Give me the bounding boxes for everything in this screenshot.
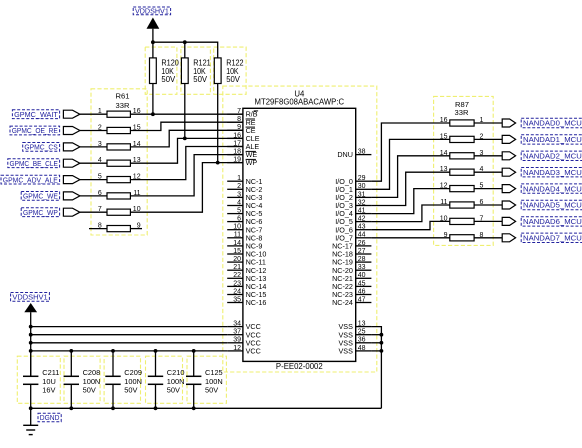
- wire U4 I/O_4 to R87 pin 12: [371, 189, 449, 214]
- variant highlight box C209: [104, 356, 140, 403]
- junction VDD rail 4: [29, 349, 33, 353]
- svg-text:40: 40: [358, 272, 366, 279]
- svg-text:21: 21: [233, 264, 241, 271]
- U4 pin 23 NC-14: [227, 280, 266, 291]
- U4 pin 36 VSS: [339, 337, 372, 348]
- net label GPMC_ADV_ALE: [1, 175, 60, 184]
- resistor network R61 33R: [98, 91, 141, 231]
- wire VDD to U4 VCC pin row 1: [31, 326, 228, 328]
- svg-text:NANDAD4_MCU: NANDAD4_MCU: [523, 184, 582, 193]
- wire R61.16 to U4 R/B: [130, 113, 243, 115]
- U4 pin 39 VCC: [227, 337, 261, 348]
- wire U4 I/O_3 to R87 pin 13: [371, 172, 449, 205]
- svg-text:NANDAD0_MCU: NANDAD0_MCU: [523, 119, 582, 128]
- port arrow GPMC_WE: [63, 192, 80, 200]
- svg-text:GPMC_WAIT: GPMC_WAIT: [14, 110, 58, 119]
- svg-text:50V: 50V: [205, 385, 218, 394]
- U4 pin 15 NC-10: [227, 248, 266, 259]
- U4 pin 34 VCC: [227, 321, 261, 332]
- svg-text:6: 6: [237, 216, 241, 223]
- U4 pin 5 NC-5: [227, 208, 262, 219]
- svg-text:50V: 50V: [226, 75, 240, 84]
- net label NANDAD4_MCU: [521, 184, 582, 193]
- junction VSS bus 4: [380, 349, 384, 353]
- net label NANDAD5_MCU: [521, 200, 582, 209]
- U4 pin 8 RE: [227, 116, 256, 127]
- svg-text:3: 3: [98, 141, 102, 148]
- svg-text:P-EE02-0002: P-EE02-0002: [276, 362, 323, 371]
- U4 pin 7 R/B: [227, 108, 258, 119]
- port arrow NANDAD7_MCU: [502, 234, 515, 242]
- svg-text:50V: 50V: [167, 385, 180, 394]
- variant highlight box C211: [17, 356, 60, 403]
- U4 pin 24 NC-15: [227, 288, 266, 299]
- net label DGND: [38, 413, 61, 422]
- wire GPMC_CS to R61 pin 3: [80, 146, 107, 148]
- svg-text:5: 5: [237, 208, 241, 215]
- net label NANDAD1_MCU: [521, 135, 582, 144]
- svg-text:VDDSHV1: VDDSHV1: [135, 7, 169, 16]
- junction R120 to R/B net: [151, 112, 155, 116]
- junction C125 top: [192, 349, 196, 353]
- svg-text:28: 28: [358, 256, 366, 263]
- net label GPMC_WP: [21, 208, 59, 217]
- svg-text:4: 4: [237, 199, 241, 206]
- svg-text:DGND: DGND: [40, 415, 60, 422]
- op IC U4 MT29F8G08ABACAWP:C body: [243, 89, 356, 371]
- svg-text:31: 31: [358, 191, 366, 198]
- port arrow NANDAD0_MCU: [502, 119, 515, 127]
- wire GPMC_ADV_ALE to R61 pin 5: [80, 179, 107, 181]
- U4 pin 33 NC-20: [332, 264, 371, 275]
- U4 pin 26 NC-17: [332, 240, 371, 251]
- svg-text:NANDAD5_MCU: NANDAD5_MCU: [523, 201, 582, 210]
- variant highlight box C210: [146, 356, 183, 403]
- svg-text:50V: 50V: [124, 385, 137, 394]
- junction C209 top: [111, 349, 115, 353]
- svg-text:35: 35: [233, 296, 241, 303]
- svg-text:NC-16: NC-16: [246, 298, 267, 307]
- wire VDD rail vertical: [30, 327, 32, 377]
- svg-text:30: 30: [358, 183, 366, 190]
- svg-text:GPMC_WE: GPMC_WE: [23, 192, 58, 201]
- svg-text:41: 41: [358, 208, 366, 215]
- svg-text:3: 3: [237, 191, 241, 198]
- junction C208 top: [69, 349, 73, 353]
- svg-text:16: 16: [233, 132, 241, 139]
- U4 pin 16 CLE: [227, 132, 260, 143]
- wire R61.15 to U4 pin row 1: [130, 122, 243, 130]
- net label GPMC_WE: [21, 192, 59, 201]
- port arrow NANDAD4_MCU: [502, 185, 515, 193]
- svg-text:39: 39: [233, 337, 241, 344]
- U4 pin 35 NC-16: [227, 296, 266, 307]
- svg-text:14: 14: [440, 150, 448, 157]
- svg-text:MT29F8G08ABACAWP:C: MT29F8G08ABACAWP:C: [255, 98, 345, 107]
- U4 pin 11 NC-8: [227, 232, 262, 243]
- U4 pin 48 VSS: [339, 345, 372, 356]
- U4 pin 27 NC-18: [332, 248, 371, 259]
- wire VSS pin row 2: [371, 334, 381, 336]
- svg-text:15: 15: [440, 133, 448, 140]
- svg-text:15: 15: [233, 248, 241, 255]
- svg-text:1: 1: [98, 108, 102, 115]
- junction R121 to CLE net: [183, 137, 187, 141]
- U4 pin 45 NC-22: [332, 280, 371, 291]
- net label GPMC_OE_RE: [10, 126, 60, 135]
- svg-text:50V: 50V: [193, 75, 207, 84]
- port arrow NANDAD2_MCU: [502, 152, 515, 160]
- svg-text:GPMC_CS: GPMC_CS: [24, 143, 57, 152]
- wire VDD to U4 VCC pin row 2: [31, 334, 228, 336]
- junction C210 top: [154, 349, 158, 353]
- resistor network R87 33R: [440, 100, 502, 241]
- wire VSS pin row 4: [371, 350, 381, 352]
- svg-text:GPMC_ADV_ALE: GPMC_ADV_ALE: [3, 175, 58, 184]
- U4 pin 37 VCC: [227, 329, 261, 340]
- svg-text:33: 33: [358, 264, 366, 271]
- svg-text:9: 9: [444, 232, 448, 239]
- svg-text:VSS: VSS: [339, 347, 354, 356]
- wire GPMC_OE_RE to R61 pin 2: [80, 130, 107, 132]
- net label NANDAD0_MCU: [521, 118, 582, 127]
- svg-text:47: 47: [358, 296, 366, 303]
- svg-text:GPMC_BE_CLE: GPMC_BE_CLE: [10, 159, 58, 168]
- junction VSS bus 2: [380, 333, 384, 337]
- svg-text:17: 17: [233, 140, 241, 147]
- svg-text:1: 1: [237, 175, 241, 182]
- variant highlight box R120: [145, 47, 177, 94]
- svg-text:VDDSHV1: VDDSHV1: [12, 293, 47, 302]
- port arrow GPMC_BE_CLE: [63, 159, 80, 167]
- svg-text:45: 45: [358, 280, 366, 287]
- wire VSS pin row 3: [371, 342, 381, 344]
- svg-text:34: 34: [233, 321, 241, 328]
- svg-text:NANDAD7_MCU: NANDAD7_MCU: [523, 234, 582, 243]
- wire VDDSHV1 rail to pullups: [153, 42, 218, 58]
- svg-text:38: 38: [358, 149, 366, 156]
- wire ground rail: [31, 407, 382, 409]
- U4 pin 12 VCC: [227, 345, 261, 356]
- U4 pin 1 NC-1: [227, 175, 262, 186]
- wire R61.12 to U4 pin row 4: [130, 147, 243, 180]
- capacitor C211 10U 16V: [23, 351, 59, 408]
- svg-text:33R: 33R: [455, 108, 469, 117]
- U4 pin 14 NC-9: [227, 240, 262, 251]
- U4 pin 31 I/O_2: [335, 191, 371, 202]
- wire GPMC_WAIT to R61 pin 1: [80, 113, 107, 115]
- svg-text:16: 16: [440, 117, 448, 124]
- ground DGND: [23, 408, 38, 434]
- U4 pin 25 VSS: [339, 329, 372, 340]
- capacitor C208 100N 50V: [64, 351, 101, 408]
- svg-text:26: 26: [358, 240, 366, 247]
- U4 pin 47 NC-24: [332, 296, 371, 307]
- U4 pin 46 NC-23: [332, 288, 371, 299]
- U4 pin 9 CE: [227, 124, 256, 135]
- net label NANDAD6_MCU: [521, 217, 582, 226]
- wire GPMC_WE to R61 pin 6: [80, 195, 107, 197]
- wire VDD to U4 VCC pin row 4: [31, 350, 228, 352]
- svg-text:8: 8: [237, 116, 241, 123]
- wire R61.11 to U4 pin row 5: [130, 155, 243, 196]
- power flag VDDSHV1 (top): [133, 7, 170, 43]
- variant highlight box R121: [181, 47, 211, 94]
- U4 pin 38 DNU: [337, 149, 371, 160]
- port arrow NANDAD3_MCU: [502, 168, 515, 176]
- U4 pin 13 VSS: [339, 321, 372, 332]
- wire R61.13 to U4 pin row 3: [130, 138, 243, 163]
- capacitor C125 100N 50V: [186, 351, 223, 408]
- net label GPMC_BE_CLE: [8, 159, 60, 168]
- port arrow NANDAD1_MCU: [502, 135, 515, 143]
- U4 pin 32 I/O_3: [335, 199, 371, 210]
- wire GPMC_BE_CLE to R61 pin 4: [80, 162, 107, 164]
- wire U4 VSS to ground rail: [371, 327, 381, 409]
- junction VDD-R120: [151, 40, 155, 44]
- U4 pin 10 NC-7: [227, 224, 262, 235]
- svg-text:13: 13: [358, 321, 366, 328]
- U4 pin 28 NC-19: [332, 256, 371, 267]
- U4 pin 44 I/O_7: [335, 232, 371, 243]
- svg-text:19: 19: [233, 157, 241, 164]
- U4 pin 2 NC-2: [227, 183, 262, 194]
- junction C125 bottom: [192, 406, 196, 410]
- svg-text:50V: 50V: [83, 385, 96, 394]
- U4 pin 29 I/O_0: [335, 175, 371, 186]
- svg-text:6: 6: [98, 190, 102, 197]
- svg-text:GPMC_WP: GPMC_WP: [23, 208, 58, 217]
- svg-text:7: 7: [98, 206, 102, 213]
- svg-text:NANDAD2_MCU: NANDAD2_MCU: [523, 152, 582, 161]
- U4 pin 43 I/O_6: [335, 224, 371, 235]
- wire U4 I/O_0 to R87 pin 16: [371, 123, 449, 181]
- variant highlight box R87: [434, 96, 494, 245]
- svg-text:24: 24: [233, 288, 241, 295]
- U4 pin 20 NC-11: [227, 256, 266, 267]
- U4 pin 4 NC-4: [227, 199, 262, 210]
- net label NANDAD7_MCU: [521, 233, 582, 242]
- wire VDD to U4 VCC pin row 3: [31, 342, 228, 344]
- resistor R122 10K 50V: [214, 58, 244, 163]
- U4 pin 42 I/O_5: [335, 216, 371, 227]
- svg-text:11: 11: [234, 232, 241, 239]
- svg-text:22: 22: [233, 272, 241, 279]
- svg-text:46: 46: [358, 288, 366, 295]
- svg-text:10: 10: [233, 224, 241, 231]
- resistor R121 10K 50V: [181, 42, 211, 138]
- variant highlight box C208: [64, 356, 100, 403]
- junction C210 bottom: [154, 406, 158, 410]
- resistor R120 10K 50V: [150, 42, 180, 114]
- wire U4 I/O_7 to R87 pin 9: [371, 237, 449, 239]
- junction C208 bottom: [69, 406, 73, 410]
- junction VDD rail 1: [29, 325, 33, 329]
- svg-text:4: 4: [98, 157, 102, 164]
- svg-text:42: 42: [358, 216, 366, 223]
- svg-text:NANDAD1_MCU: NANDAD1_MCU: [523, 135, 582, 144]
- U4 pin 30 I/O_1: [335, 183, 371, 194]
- svg-text:44: 44: [358, 232, 366, 239]
- svg-text:13: 13: [440, 166, 448, 173]
- net label GPMC_WAIT: [12, 110, 59, 119]
- wire R61.10 to U4 pin row 6: [130, 163, 243, 213]
- U4 pin 18 WE: [227, 149, 257, 160]
- junction VDD rail 2: [29, 333, 33, 337]
- junction R122 to WP net: [216, 161, 220, 165]
- port arrow GPMC_OE_RE: [63, 127, 80, 135]
- port arrow GPMC_WP: [63, 208, 80, 216]
- U4 pin 19 WP: [227, 157, 257, 168]
- svg-text:29: 29: [358, 175, 366, 182]
- svg-text:DNU: DNU: [337, 150, 353, 159]
- svg-text:12: 12: [233, 345, 241, 352]
- svg-text:25: 25: [358, 329, 366, 336]
- power flag VDDSHV1 (bottom): [11, 293, 50, 327]
- junction DGND rail: [29, 406, 33, 410]
- variant highlight box C125: [187, 356, 226, 403]
- svg-text:NC-24: NC-24: [332, 298, 353, 307]
- variant highlight box U4: [223, 86, 377, 372]
- junction VDD rail 3: [29, 341, 33, 345]
- stub R61 pin 8: [89, 228, 107, 230]
- svg-text:50V: 50V: [161, 75, 175, 84]
- svg-text:9: 9: [237, 124, 241, 131]
- wire GPMC_WP to R61 pin 7: [80, 211, 107, 213]
- svg-text:12: 12: [440, 183, 448, 190]
- svg-text:48: 48: [358, 345, 366, 352]
- junction VSS bus 3: [380, 341, 384, 345]
- stub R61 pin 9: [130, 228, 142, 230]
- junction VDD-R121: [183, 40, 187, 44]
- wire U4 I/O_2 to R87 pin 14: [371, 156, 449, 198]
- U4 pin 41 I/O_4: [335, 208, 371, 219]
- variant highlight box R61: [91, 89, 147, 235]
- svg-text:10: 10: [440, 215, 448, 222]
- U4 pin 21 NC-12: [227, 264, 266, 275]
- wire U4 I/O_1 to R87 pin 15: [371, 139, 449, 189]
- svg-text:NANDAD3_MCU: NANDAD3_MCU: [523, 168, 582, 177]
- U4 pin 17 ALE: [227, 140, 259, 151]
- port arrow GPMC_CS: [63, 143, 80, 151]
- svg-text:23: 23: [233, 280, 241, 287]
- svg-text:11: 11: [440, 199, 447, 206]
- capacitor C210 100N 50V: [148, 351, 185, 408]
- wire R61.14 to U4 pin row 2: [130, 130, 243, 147]
- svg-text:18: 18: [233, 149, 241, 156]
- port arrow GPMC_ADV_ALE: [63, 176, 80, 184]
- port arrow GPMC_WAIT: [63, 110, 80, 118]
- port arrow NANDAD5_MCU: [502, 201, 515, 209]
- capacitor C209 100N 50V: [105, 351, 142, 408]
- svg-text:7: 7: [237, 108, 241, 115]
- svg-text:36: 36: [358, 337, 366, 344]
- port arrow NANDAD6_MCU: [502, 217, 515, 225]
- svg-text:2: 2: [98, 125, 102, 132]
- U4 pin 6 NC-6: [227, 216, 262, 227]
- svg-text:37: 37: [233, 329, 241, 336]
- U4 pin 3 NC-3: [227, 191, 262, 202]
- junction C209 bottom: [111, 406, 115, 410]
- svg-text:43: 43: [358, 224, 366, 231]
- svg-text:2: 2: [237, 183, 241, 190]
- U4 pin 40 NC-21: [332, 272, 371, 283]
- net label GPMC_CS: [23, 143, 60, 152]
- wire U4 I/O_5 to R87 pin 11: [371, 205, 449, 222]
- svg-text:NANDAD6_MCU: NANDAD6_MCU: [523, 217, 582, 226]
- variant highlight box R122: [214, 47, 246, 94]
- svg-text:16V: 16V: [42, 385, 55, 394]
- svg-text:27: 27: [358, 248, 366, 255]
- svg-text:20: 20: [233, 256, 241, 263]
- svg-text:VCC: VCC: [246, 347, 261, 356]
- wire U4 I/O_6 to R87 pin 10: [371, 221, 449, 229]
- svg-text:33R: 33R: [116, 101, 130, 110]
- svg-text:14: 14: [233, 240, 241, 247]
- U4 pin 22 NC-13: [227, 272, 266, 283]
- svg-text:32: 32: [358, 199, 366, 206]
- svg-text:5: 5: [98, 174, 102, 181]
- svg-text:GPMC_OE_RE: GPMC_OE_RE: [12, 126, 58, 135]
- net label NANDAD2_MCU: [521, 151, 582, 160]
- svg-text:R61: R61: [116, 91, 130, 100]
- net label NANDAD3_MCU: [521, 168, 582, 177]
